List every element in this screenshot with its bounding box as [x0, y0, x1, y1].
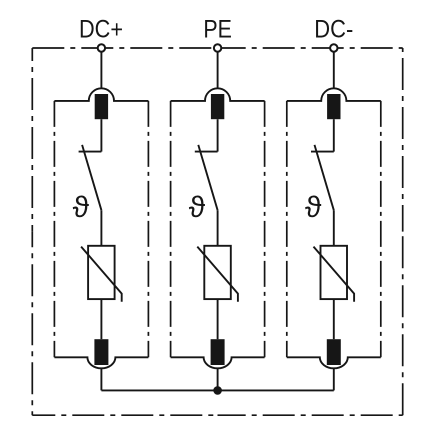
varistor RV3 body [321, 246, 348, 299]
bottom plug contact (filled) [211, 339, 225, 365]
svg-text:DC-: DC- [314, 16, 353, 44]
top plug contact (filled) [327, 94, 340, 119]
varistor RV1 body [88, 246, 115, 299]
wire varistor to bottom contact [333, 299, 335, 339]
svg-text:ϑ: ϑ [189, 191, 206, 224]
module outline F3 bottom edge with plug bump [287, 357, 381, 368]
wire terminal to plug contact [217, 52, 219, 88]
junction node on PE bus [213, 386, 222, 395]
thermal disconnector blade [198, 145, 217, 210]
terminal PE [214, 44, 221, 51]
svg-text:ϑ: ϑ [73, 191, 90, 224]
module outline F3 top edge with plug bump [287, 88, 381, 101]
varistor RV1 diagonal stroke [81, 247, 122, 302]
module outline F3 (dash-dot sides) [287, 101, 381, 357]
wire contact to disconnector [217, 119, 219, 151]
wire contact to disconnector [333, 119, 335, 151]
thermal disconnector blade [82, 145, 101, 210]
bottom plug contact (filled) [94, 339, 108, 365]
varistor RV3 diagonal stroke [314, 247, 355, 302]
wire varistor to bottom contact [100, 299, 102, 339]
wire bottom contact to PE bus [100, 368, 102, 391]
module outline F1 (dash-dot sides) [54, 101, 148, 357]
module outline F1 top edge with plug bump [54, 88, 148, 101]
bottom plug contact (filled) [327, 339, 341, 365]
wire terminal to plug contact [100, 52, 102, 88]
thermal disconnector fixed lead [311, 151, 334, 153]
wire varistor to bottom contact [217, 299, 219, 339]
wire blade to varistor [217, 210, 219, 246]
wire bottom contact to PE bus [333, 368, 335, 391]
PE bus wire [101, 389, 333, 391]
wire blade to varistor [333, 210, 335, 246]
thermal disconnector blade [315, 145, 334, 210]
wire terminal to plug contact [333, 52, 335, 88]
thermal disconnector fixed lead [79, 151, 102, 153]
module outline F2 top edge with plug bump [171, 88, 265, 101]
top plug contact (filled) [211, 94, 224, 119]
svg-text:DC+: DC+ [79, 16, 123, 44]
enclosure outline (dash-dot device border) [32, 48, 402, 415]
module outline F2 bottom edge with plug bump [171, 357, 265, 368]
svg-text:PE: PE [203, 16, 232, 44]
terminal DC+ [98, 44, 105, 51]
module outline F1 bottom edge with plug bump [54, 357, 148, 368]
svg-text:ϑ: ϑ [305, 191, 322, 224]
thermal disconnector fixed lead [195, 151, 218, 153]
terminal DC- [330, 44, 337, 51]
wire bottom contact to PE bus [217, 368, 219, 391]
top plug contact (filled) [95, 94, 108, 119]
varistor RV2 diagonal stroke [197, 247, 238, 302]
module outline F2 (dash-dot sides) [171, 101, 265, 357]
varistor RV2 body [204, 246, 231, 299]
wire blade to varistor [100, 210, 102, 246]
wire contact to disconnector [100, 119, 102, 151]
